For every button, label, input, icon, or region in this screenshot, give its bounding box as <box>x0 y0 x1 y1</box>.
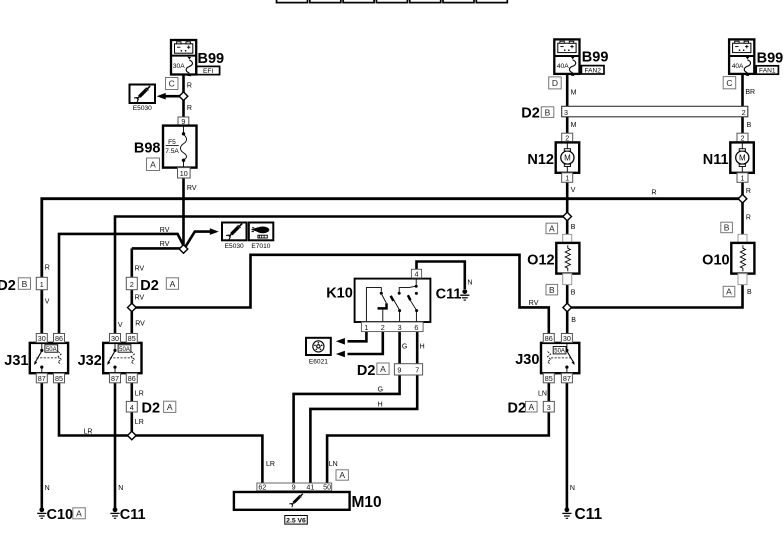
svg-text:EFI: EFI <box>203 68 213 75</box>
wire: LN from J30-85 to M10 pin50 <box>327 383 549 483</box>
svg-text:2: 2 <box>742 108 746 117</box>
svg-text:M10: M10 <box>352 494 382 511</box>
node: RV junction diamond below B98 <box>179 245 188 254</box>
svg-text:C11: C11 <box>575 506 603 523</box>
svg-text:87: 87 <box>38 374 46 383</box>
pin 85 of J31 <box>54 373 65 383</box>
svg-text:RV: RV <box>135 265 145 272</box>
svg-text:RV: RV <box>135 294 145 301</box>
svg-text:A: A <box>167 402 173 412</box>
svg-text:50A: 50A <box>119 347 130 353</box>
svg-text:87: 87 <box>111 374 119 383</box>
wire: B98/EFI column (R then RV) from fuse B99 down to RV junction <box>182 75 185 247</box>
header tab boxes (top, cut off) <box>277 0 508 3</box>
svg-text:D2: D2 <box>142 401 161 417</box>
svg-text:LR: LR <box>135 419 144 426</box>
svg-text:V: V <box>118 322 123 329</box>
component E5030 icon box (left) <box>130 85 156 113</box>
connector letter B box (O10 top) <box>721 222 733 233</box>
svg-text:B: B <box>747 289 752 296</box>
wire: V line from J32-30 column across to node under N12 <box>115 217 567 334</box>
pin 1 of D2 <box>36 277 47 289</box>
arrow to E5030 (left) <box>166 95 181 98</box>
connector letter A box <box>526 401 538 412</box>
svg-text:D2: D2 <box>140 278 159 294</box>
svg-text:50A: 50A <box>554 349 565 355</box>
label box FAN1 <box>756 66 778 75</box>
svg-text:A: A <box>549 224 555 234</box>
svg-text:C: C <box>726 78 732 88</box>
battery/fuse B99 (EFI) <box>171 40 196 76</box>
svg-text:BR: BR <box>745 89 755 96</box>
svg-text:86: 86 <box>55 334 63 343</box>
svg-text:30A: 30A <box>173 63 185 70</box>
pin 85 of J30 <box>543 373 554 383</box>
wire: J32-86 down to LR bus <box>131 383 134 436</box>
node: diamond below B99-EFI <box>179 92 188 101</box>
relay J31 <box>30 343 68 373</box>
svg-text:2: 2 <box>130 280 134 289</box>
pin 86 of J32 <box>126 373 137 383</box>
svg-text:50A: 50A <box>46 347 57 353</box>
svg-text:1: 1 <box>741 174 745 183</box>
svg-text:3: 3 <box>547 403 551 412</box>
svg-text:R: R <box>652 189 657 196</box>
connector letter D box <box>549 77 562 89</box>
svg-text:4: 4 <box>415 269 419 278</box>
svg-text:A: A <box>726 287 732 297</box>
svg-text:30: 30 <box>111 334 119 343</box>
svg-text:B98: B98 <box>134 141 161 157</box>
wire: J32-85 / D2-2 column down to J32 <box>131 248 134 333</box>
svg-text:40A: 40A <box>732 63 744 70</box>
connector letter A box <box>166 278 178 290</box>
svg-text:FAN2: FAN2 <box>584 67 601 74</box>
svg-text:D2: D2 <box>521 106 540 122</box>
pin 30 of J30 <box>561 334 572 343</box>
svg-text:LR: LR <box>266 461 275 468</box>
svg-text:LR: LR <box>135 391 144 398</box>
svg-text:86: 86 <box>128 374 136 383</box>
pin 86 of J31 <box>54 334 65 343</box>
wire: RV line1 J31-86 up and right to RV node kink <box>59 234 183 334</box>
svg-text:A: A <box>150 160 156 170</box>
svg-text:6: 6 <box>414 323 418 332</box>
svg-text:A: A <box>339 470 345 480</box>
svg-text:B: B <box>724 223 730 233</box>
svg-text:M: M <box>571 90 577 97</box>
pin 9 of B98 <box>178 117 189 126</box>
svg-text:N: N <box>45 485 50 492</box>
svg-text:J32: J32 <box>78 353 102 369</box>
svg-text:85: 85 <box>545 374 553 383</box>
svg-text:E7010: E7010 <box>251 243 270 250</box>
svg-text:B: B <box>571 290 576 297</box>
svg-text:A: A <box>76 509 82 519</box>
svg-text:N: N <box>467 279 472 286</box>
svg-text:B: B <box>549 285 555 295</box>
wire: K10 pin6 H down through D2-7 to M10 pin41 <box>310 332 417 483</box>
relay J32 <box>103 343 141 373</box>
pin row 1 2 3 6 of K10 <box>361 322 423 332</box>
svg-text:B99: B99 <box>198 51 225 67</box>
svg-text:B: B <box>571 317 576 324</box>
resistor O12 <box>556 234 579 284</box>
svg-text:7: 7 <box>415 366 419 375</box>
svg-text:41: 41 <box>306 483 314 492</box>
svg-text:C11: C11 <box>120 507 146 523</box>
pin 87 of J32 <box>110 373 121 383</box>
svg-text:LN: LN <box>538 391 547 398</box>
wire: N12 column from B99-FAN2 down to J30-30 <box>566 74 569 333</box>
svg-text:G: G <box>378 387 383 394</box>
svg-text:RV: RV <box>160 227 170 234</box>
pin 85 of J32 <box>126 334 137 343</box>
wire: K10 pin3 G down through D2-9 to M10 pin9 <box>294 332 400 483</box>
svg-text:2: 2 <box>381 323 385 332</box>
svg-text:D: D <box>552 78 558 88</box>
svg-text:B: B <box>545 107 551 117</box>
svg-text:C10: C10 <box>47 507 74 523</box>
connector letter B box <box>18 278 30 290</box>
pin 4 of D2 <box>126 401 137 412</box>
svg-text:30: 30 <box>38 334 46 343</box>
battery/fuse B99 (FAN2) <box>554 39 579 76</box>
pin 86 of J30 <box>543 334 554 343</box>
svg-text:B99: B99 <box>582 50 609 66</box>
connector letter A box (O10 bottom) <box>723 286 735 297</box>
svg-text:LN: LN <box>329 461 338 468</box>
svg-text:E6021: E6021 <box>309 358 328 365</box>
component E6021 icon box <box>306 338 331 366</box>
connector letter C of B99-EFI <box>166 78 179 90</box>
pin 3 of D2 <box>543 401 554 412</box>
svg-text:RV: RV <box>160 241 170 248</box>
wire: RV line2 from D2 pin2 column to RV node <box>132 247 181 250</box>
svg-text:N11: N11 <box>703 152 729 168</box>
svg-text:K10: K10 <box>326 286 353 302</box>
connector letter A box (M10) <box>336 470 348 480</box>
svg-text:D2: D2 <box>508 401 527 417</box>
wire: J32-87 down to ground C11 <box>114 383 117 508</box>
component E7010 icon box <box>249 223 273 251</box>
switch unit K10 <box>355 279 431 322</box>
node: diamond on J32-85 column <box>128 303 137 312</box>
svg-text:85: 85 <box>128 334 136 343</box>
wire: LR bus J31-85 right to M10 pin62 <box>59 383 262 483</box>
connector bar D2 (B) with pins 3 and 2 <box>562 106 748 117</box>
fuse B98 <box>163 126 197 168</box>
node: diamond on LR bus <box>128 431 137 440</box>
svg-text:50: 50 <box>323 483 331 492</box>
connector letter A box (O12 top) <box>546 223 558 234</box>
node: diamond below N12 <box>563 212 572 221</box>
label 2.5 V6 <box>285 516 308 525</box>
svg-text:1: 1 <box>364 323 368 332</box>
svg-text:3: 3 <box>398 323 402 332</box>
svg-text:R: R <box>45 264 50 271</box>
svg-text:N12: N12 <box>527 152 554 168</box>
connector letter B box (O12 bottom) <box>546 284 558 295</box>
svg-text:F5: F5 <box>168 139 176 146</box>
svg-text:62: 62 <box>258 483 266 492</box>
wire: main R bus from J31-30 column up and across to N11 column <box>42 199 743 334</box>
label box EFI <box>197 66 220 75</box>
resistor O10 <box>731 234 754 284</box>
connector letter A box <box>164 401 176 412</box>
node: diamond at O12 bottom <box>563 303 572 312</box>
svg-text:B: B <box>747 122 752 129</box>
battery/fuse B99 (FAN1) <box>729 39 754 76</box>
svg-text:N: N <box>118 485 123 492</box>
ground C11 (K10) <box>460 289 469 300</box>
svg-text:B: B <box>571 224 576 231</box>
connector letter C box <box>723 77 736 89</box>
svg-text:C11: C11 <box>436 286 462 302</box>
engine ECU M10 <box>257 483 332 492</box>
pin 87 of J30 <box>561 373 572 383</box>
svg-text:V: V <box>571 187 576 194</box>
wire: K10 pin4 loop to ground C11 <box>417 262 465 290</box>
svg-text:FAN1: FAN1 <box>759 68 776 75</box>
svg-text:LR: LR <box>84 429 93 436</box>
arrow to E5030/E7010 from RV node <box>186 232 211 247</box>
label box FAN2 <box>581 66 604 75</box>
svg-text:H: H <box>420 344 425 351</box>
wire: N11 column from B99-FAN1 down, left to node at O12 bottom <box>570 74 743 307</box>
svg-text:3: 3 <box>564 108 568 117</box>
pin 2 of N11 <box>737 133 748 143</box>
svg-text:87: 87 <box>563 374 571 383</box>
wire: J31-87 down to ground C10 <box>40 383 43 508</box>
connector letter B box <box>541 107 554 118</box>
component E5030 icon box (near RV node) <box>222 223 247 251</box>
pin 10 of B98 <box>178 168 191 178</box>
node: diamond at bus end below N11 <box>738 194 747 203</box>
svg-text:E5030: E5030 <box>225 243 244 250</box>
svg-text:10: 10 <box>180 169 188 178</box>
svg-text:A: A <box>170 279 176 289</box>
svg-text:RV: RV <box>529 300 539 307</box>
svg-text:R: R <box>746 214 751 221</box>
svg-text:9: 9 <box>397 366 401 375</box>
svg-text:O10: O10 <box>702 253 729 269</box>
svg-text:85: 85 <box>55 374 63 383</box>
wire: J30-87 down to ground C11 <box>566 383 569 508</box>
svg-text:1: 1 <box>565 174 569 183</box>
svg-text:C: C <box>169 79 175 89</box>
svg-text:D2: D2 <box>357 363 376 379</box>
svg-text:N: N <box>570 485 575 492</box>
connector letter A box <box>377 363 389 374</box>
svg-text:7.5A: 7.5A <box>165 148 179 155</box>
svg-text:R: R <box>746 188 751 195</box>
pin 2 of D2 <box>126 277 137 289</box>
connector letter A of B98 <box>147 158 160 171</box>
svg-text:86: 86 <box>545 334 553 343</box>
pins 9 and 7 of D2 <box>394 364 422 375</box>
svg-text:30: 30 <box>563 334 571 343</box>
svg-text:9: 9 <box>292 483 296 492</box>
svg-text:1: 1 <box>40 280 44 289</box>
svg-text:O12: O12 <box>527 253 554 269</box>
svg-text:J30: J30 <box>515 352 539 368</box>
pin 2 of N12 <box>562 133 573 143</box>
svg-text:R: R <box>187 105 192 112</box>
svg-text:D2: D2 <box>0 278 16 294</box>
pin 1 of N11 <box>737 173 748 183</box>
svg-text:40A: 40A <box>557 63 569 70</box>
pin 4 of K10 <box>411 269 421 278</box>
svg-text:H: H <box>378 402 383 409</box>
svg-text:G: G <box>402 344 407 351</box>
svg-text:4: 4 <box>130 403 134 412</box>
svg-text:A: A <box>528 402 534 412</box>
wire: K10 pin2 arrow to E6021 <box>348 332 383 354</box>
pin 30 of J32 <box>110 334 121 343</box>
svg-text:RV: RV <box>135 321 145 328</box>
svg-text:B99: B99 <box>757 51 784 67</box>
svg-text:M: M <box>571 122 577 129</box>
relay J30 <box>541 343 579 373</box>
svg-text:2.5 V6: 2.5 V6 <box>286 517 306 524</box>
svg-text:V: V <box>45 298 50 305</box>
pin 1 of N12 <box>562 173 573 183</box>
svg-text:RV: RV <box>187 185 197 192</box>
svg-text:B: B <box>22 279 28 289</box>
svg-text:R: R <box>187 83 192 90</box>
wire: RV run from J32 node east to J30-86 <box>132 255 549 334</box>
svg-text:J31: J31 <box>4 353 28 369</box>
wire: K10 pin1 arrow to E6021 <box>348 332 367 342</box>
pin 87 of J31 <box>36 373 47 383</box>
svg-text:A: A <box>380 364 386 374</box>
svg-text:E5030: E5030 <box>133 105 152 112</box>
pin 30 of J31 <box>36 334 47 343</box>
